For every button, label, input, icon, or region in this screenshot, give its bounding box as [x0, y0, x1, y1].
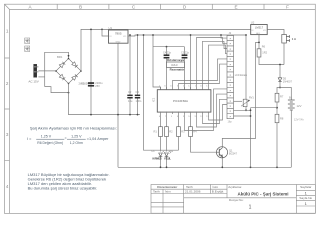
svg-text:Rezonatör: Rezonatör: [170, 68, 186, 72]
note text: charge current formula: [27, 125, 117, 145]
LED D2: [165, 151, 172, 168]
LM317 pin labels: [251, 30, 266, 35]
svg-text:C5 22p: C5 22p: [181, 52, 190, 55]
svg-text:İsim: İsim: [213, 184, 219, 189]
svg-text:Dosya No:: Dosya No:: [229, 198, 244, 202]
capacitor C1 electrolytic: [88, 82, 94, 86]
svg-text:4: 4: [6, 184, 9, 189]
svg-text:İsim: İsim: [165, 189, 171, 194]
svg-text:Kristal veya: Kristal veya: [167, 58, 184, 62]
ground rail nodes: [160, 166, 162, 168]
svg-text:16p: 16p: [228, 121, 233, 124]
node 5V rail R3 line: [143, 34, 145, 36]
svg-text:10u: 10u: [128, 99, 133, 103]
frame row dividers: [5, 58, 10, 160]
wire D5 node to battery top: [280, 88, 291, 101]
resistor R6: [257, 49, 284, 65]
node battery top junction: [279, 87, 281, 89]
regulator U2 LM317: [251, 25, 268, 35]
fraction bars: [36, 138, 85, 140]
frame column dividers: [57, 4, 264, 9]
svg-text:1R2: 1R2: [262, 51, 267, 55]
svg-text:Sayfalar: Sayfalar: [300, 185, 311, 189]
capacitor C5: [182, 47, 188, 90]
crystal X1: [167, 62, 185, 68]
svg-text:Tarih: Tarih: [153, 190, 160, 194]
IC bottom pin numbers: [159, 116, 210, 118]
svg-text:Tarih: Tarih: [186, 185, 193, 189]
node main rail C1: [90, 29, 92, 31]
svg-text:1,25 V: 1,25 V: [71, 135, 82, 139]
note text: LM317 cooling paragraph: [28, 172, 110, 191]
battery B1 12V: [288, 100, 295, 113]
J2 pin marks: [230, 36, 232, 118]
wire RV1 bottom to LCD gnd line: [245, 107, 247, 111]
svg-text:R7: R7: [280, 95, 284, 99]
svg-text:C1: C1: [81, 82, 85, 86]
svg-text:R1: R1: [154, 130, 158, 134]
svg-text:R6 Değeri (Ohm): R6 Değeri (Ohm): [37, 141, 63, 145]
node VDD on 5V rail: [190, 34, 192, 36]
frame row numbers: [6, 29, 9, 190]
svg-text:21.01.2006: 21.01.2006: [185, 190, 201, 194]
svg-text:ADJ: ADJ: [256, 32, 260, 35]
svg-text:U2: U2: [251, 20, 255, 24]
regulator U1 7805: [109, 30, 129, 43]
svg-text:100n: 100n: [136, 99, 142, 103]
node oscillator ground: [166, 46, 168, 48]
capacitor C2: [127, 34, 132, 115]
wire fuse to D5 node: [280, 43, 284, 77]
svg-text:F: F: [286, 4, 289, 9]
svg-text:Bu durumda şarj süresi biraz u: Bu durumda şarj süresi biraz uzayabilir.: [28, 186, 98, 191]
wire LM317 ADJ down: [258, 35, 260, 49]
bridge rectifier BR1: [55, 57, 83, 85]
svg-text:B: B: [79, 4, 82, 9]
resistor R3: [177, 114, 181, 150]
svg-text:B1: B1: [289, 95, 293, 99]
svg-text:1: 1: [6, 29, 9, 34]
svg-text:AC 15V: AC 15V: [28, 80, 38, 84]
svg-text:C4 22p: C4 22p: [163, 52, 172, 55]
resistor R4: [189, 114, 217, 152]
svg-text:C2: C2: [128, 90, 132, 94]
wire into 7805 VI: [102, 29, 109, 36]
node VSS branch on 5V rail: [152, 34, 154, 36]
capacitor C3: [135, 34, 140, 115]
svg-text:=1,04 Amper: =1,04 Amper: [87, 137, 109, 141]
svg-text:B.Eryiğit: B.Eryiğit: [212, 190, 224, 194]
trimmer RV1: [234, 99, 250, 107]
wire C1 branch: [90, 29, 92, 114]
wire AC lower jog to bottom node drop: [45, 87, 69, 93]
frame corner diagonal: [5, 4, 10, 9]
title block texts: [153, 184, 312, 202]
wire bridge right node up to main rail: [81, 29, 251, 71]
svg-text:U1: U1: [109, 26, 113, 30]
wire AC vertical to bridge top node: [45, 52, 69, 86]
svg-text:E: E: [234, 4, 237, 9]
wire to R7 divider: [277, 88, 280, 94]
wire bridge bottom to ground rail: [69, 84, 141, 115]
svg-text:12V: 12V: [297, 104, 302, 108]
node ADJ junction: [258, 42, 260, 44]
7805 pin labels: [109, 36, 126, 43]
resistor R1: [159, 114, 163, 152]
resistor R7: [275, 93, 279, 114]
svg-text:1: 1: [249, 205, 252, 211]
svg-text:Açıklama:: Açıklama:: [228, 185, 242, 189]
ground rail lower: [118, 166, 291, 168]
svg-text:R6: R6: [262, 44, 266, 48]
transistor Q1: [216, 147, 227, 158]
node fuse-R6 junction: [279, 64, 281, 66]
svg-text:RV1: RV1: [249, 97, 254, 100]
node main rail 7805 input: [101, 29, 103, 31]
svg-text:1,2 Ohm: 1,2 Ohm: [70, 141, 83, 145]
wire J1 pin1 to bridge left node: [38, 70, 56, 72]
svg-text:C3: C3: [136, 90, 140, 94]
svg-text:3: 3: [6, 132, 9, 137]
IC top pin stubs: [161, 87, 209, 90]
connector J1 AC input: [34, 64, 39, 77]
LED D1: [159, 151, 166, 168]
resistor R2: [165, 114, 169, 152]
wire divider tap left: [251, 107, 278, 109]
wire Q1 emitter to ground rail: [221, 158, 223, 167]
node at bridge top: [68, 55, 70, 57]
svg-text:Akülü PIC - Şarj Sistemi: Akülü PIC - Şarj Sistemi: [237, 191, 288, 196]
IC top pin numbers: [159, 85, 210, 87]
svg-text:KIRMIZI: KIRMIZI: [153, 158, 162, 161]
frame column letters: [28, 4, 289, 9]
resistor R8: [275, 114, 279, 167]
fuse F1: [282, 35, 290, 44]
diode D5: [278, 77, 282, 88]
wire nest lower: IC bottom pins to LCD cells: [185, 89, 228, 131]
svg-text:BC547: BC547: [229, 152, 237, 156]
svg-text:R2: R2: [169, 130, 173, 134]
svg-text:VO: VO: [123, 36, 126, 38]
svg-text:12V-7Ah: 12V-7Ah: [294, 119, 304, 122]
wire LCD pin15 right: [234, 109, 251, 111]
ERC marker 1: [25, 38, 30, 44]
svg-text:BR1: BR1: [57, 55, 63, 59]
node 5V rail LCD drop: [245, 34, 247, 36]
node ground rail C1: [90, 114, 92, 116]
wire LCD pin16 right: [234, 108, 251, 168]
svg-text:VO: VO: [263, 30, 266, 32]
wire 5V drop to LCD area: [245, 35, 247, 99]
wire battery bottom to ground rail: [290, 113, 292, 168]
wire Q1 collector to ADJ node line: [222, 42, 259, 146]
node at bridge bottom drop: [68, 92, 70, 94]
svg-text:1 A: 1 A: [292, 37, 296, 41]
wire nest upper: IC top pins to LCD cells: [173, 35, 228, 87]
svg-text:YEŞİL: YEŞİL: [164, 158, 171, 161]
IC1 PIC16F84A: [157, 90, 211, 112]
svg-text:PIC16F84A: PIC16F84A: [173, 99, 188, 103]
wire 5V rail from 7805 VO: [128, 35, 246, 36]
svg-text:Sayfa No: Sayfa No: [299, 196, 312, 200]
wire VSS branch to oscillator ground: [153, 35, 185, 90]
svg-text:LCD Ekranı: LCD Ekranı: [235, 74, 248, 77]
wire 7805 GND to grounds: [117, 43, 119, 167]
svg-text:VI: VI: [109, 36, 111, 38]
wire LM317 VO to fuse: [267, 30, 284, 35]
node 7805 gnd on ground rail: [117, 114, 119, 116]
svg-text:GND: GND: [116, 41, 121, 43]
svg-text:Düzenlemeler: Düzenlemeler: [157, 185, 178, 189]
svg-text:1,25 V: 1,25 V: [41, 135, 52, 139]
connector J2 LCD header: [227, 36, 234, 119]
wire R3 pull line: [144, 35, 179, 150]
title block: [151, 185, 315, 214]
node LCD gnd line: [250, 109, 252, 111]
svg-text:1N4007: 1N4007: [283, 80, 293, 84]
svg-text:7805: 7805: [115, 31, 122, 35]
ERC marker 2: [25, 46, 30, 52]
svg-text:25V: 25V: [95, 84, 100, 88]
capacitor C4: [164, 47, 170, 90]
svg-text:=: =: [65, 136, 67, 140]
svg-text:4MHz: 4MHz: [171, 63, 178, 67]
wire J1 pin2 to AC vertical: [38, 76, 44, 78]
node divider tap: [276, 107, 278, 109]
svg-text:2: 2: [6, 81, 9, 86]
IC bottom pin stubs: [161, 112, 209, 115]
svg-text:Şarj Akımı Ayarlaması için R6: Şarj Akımı Ayarlaması için R6 nın Hesapl…: [30, 125, 117, 130]
svg-text:LM317: LM317: [255, 25, 264, 29]
svg-text:R8: R8: [280, 117, 284, 121]
svg-text:IC1: IC1: [152, 97, 156, 102]
wire VDD drop: [190, 35, 192, 90]
